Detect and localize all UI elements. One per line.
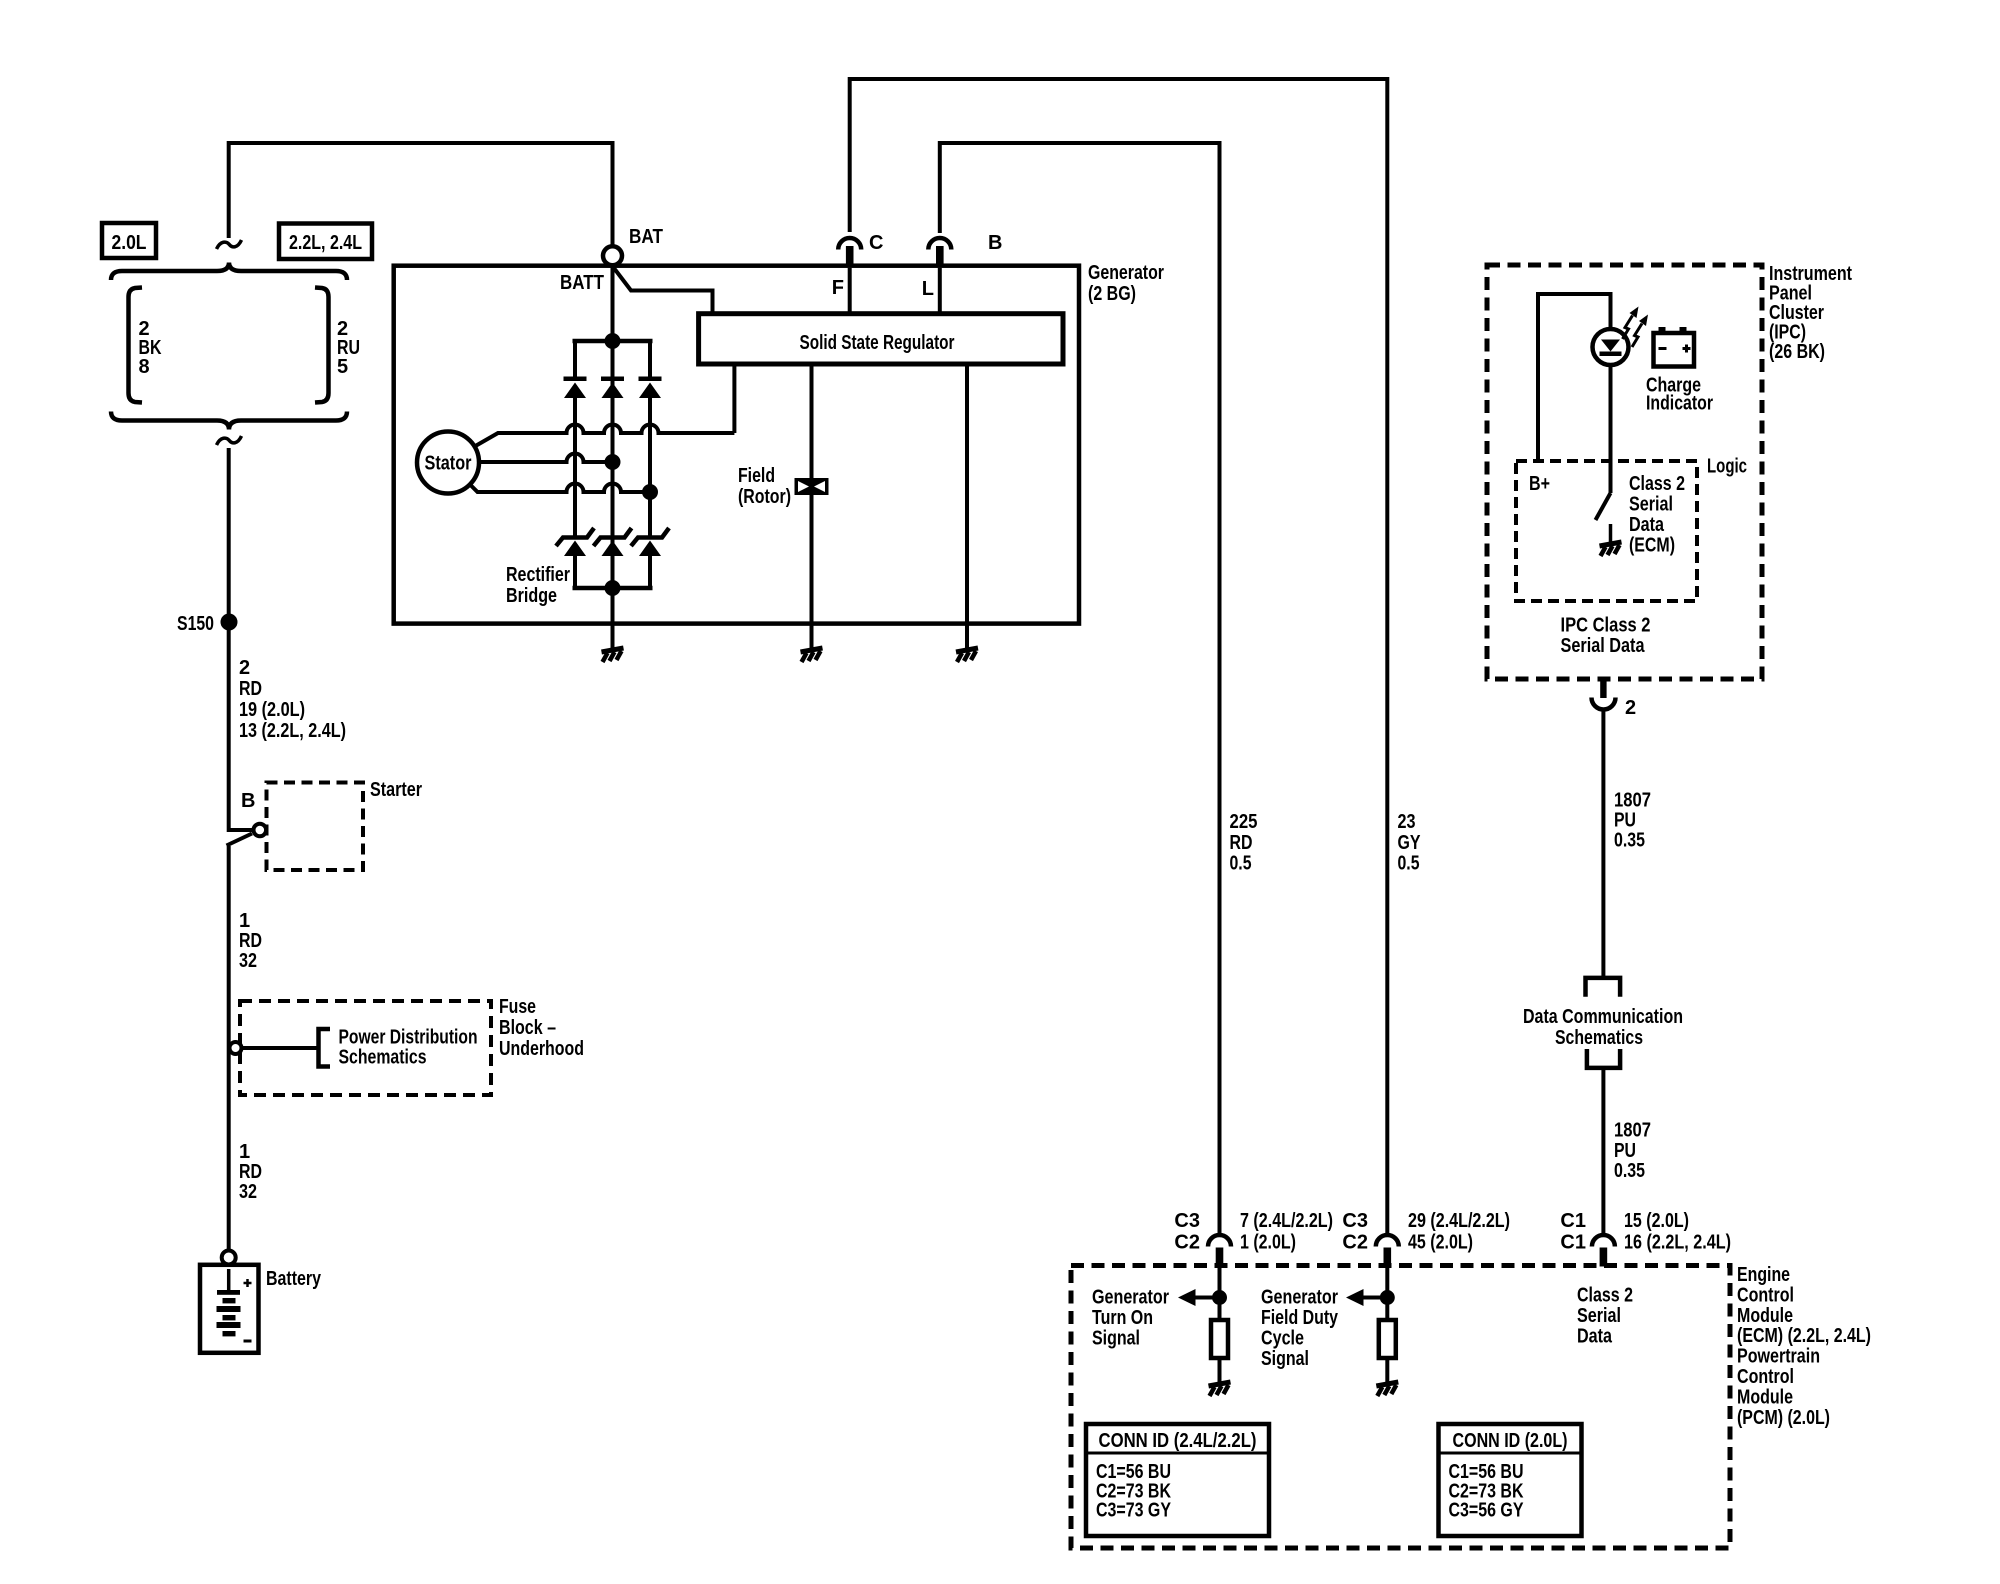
svg-text:F: F bbox=[832, 277, 844, 299]
svg-text:IPC Class 2: IPC Class 2 bbox=[1561, 615, 1651, 637]
svg-text:Module: Module bbox=[1737, 1305, 1793, 1327]
svg-text:45 (2.0L): 45 (2.0L) bbox=[1408, 1232, 1473, 1254]
svg-text:Data Communication: Data Communication bbox=[1523, 1006, 1683, 1028]
svg-text:BAT: BAT bbox=[629, 226, 663, 248]
svg-text:Engine: Engine bbox=[1737, 1264, 1790, 1286]
svg-text:(Rotor): (Rotor) bbox=[738, 486, 791, 508]
svg-text:Control: Control bbox=[1737, 1366, 1794, 1388]
svg-text:Serial: Serial bbox=[1629, 494, 1673, 516]
svg-text:Indicator: Indicator bbox=[1646, 393, 1713, 415]
svg-text:C3=73 GY: C3=73 GY bbox=[1096, 1500, 1172, 1522]
svg-text:RD: RD bbox=[1230, 832, 1253, 854]
svg-text:Serial Data: Serial Data bbox=[1561, 635, 1646, 657]
svg-text:(PCM) (2.0L): (PCM) (2.0L) bbox=[1737, 1407, 1830, 1429]
svg-text:5: 5 bbox=[337, 356, 348, 378]
svg-text:B+: B+ bbox=[1529, 473, 1550, 495]
svg-text:Serial: Serial bbox=[1577, 1305, 1621, 1327]
svg-text:Logic: Logic bbox=[1707, 456, 1747, 478]
svg-text:16 (2.2L, 2.4L): 16 (2.2L, 2.4L) bbox=[1624, 1232, 1731, 1254]
svg-text:0.5: 0.5 bbox=[1398, 853, 1420, 875]
svg-text:Battery: Battery bbox=[266, 1268, 322, 1290]
svg-text:Starter: Starter bbox=[370, 779, 422, 801]
svg-text:(26 BK): (26 BK) bbox=[1769, 341, 1825, 363]
svg-text:BATT: BATT bbox=[560, 272, 604, 294]
svg-text:Data: Data bbox=[1629, 514, 1665, 536]
svg-text:0.35: 0.35 bbox=[1614, 1160, 1645, 1182]
svg-text:S150: S150 bbox=[177, 613, 214, 635]
svg-text:CONN ID (2.0L): CONN ID (2.0L) bbox=[1453, 1430, 1568, 1452]
svg-text:1 (2.0L): 1 (2.0L) bbox=[1240, 1232, 1296, 1254]
svg-text:1807: 1807 bbox=[1614, 1120, 1651, 1142]
svg-text:C2: C2 bbox=[1174, 1232, 1200, 1254]
svg-text:Block –: Block – bbox=[499, 1017, 556, 1039]
svg-text:Schematics: Schematics bbox=[339, 1047, 427, 1069]
svg-text:PU: PU bbox=[1614, 1140, 1636, 1162]
svg-text:Generator: Generator bbox=[1092, 1287, 1169, 1309]
svg-text:29 (2.4L/2.2L): 29 (2.4L/2.2L) bbox=[1408, 1210, 1510, 1232]
svg-text:19 (2.0L): 19 (2.0L) bbox=[239, 699, 305, 721]
svg-text:Control: Control bbox=[1737, 1284, 1794, 1306]
svg-text:2: 2 bbox=[1625, 697, 1636, 719]
svg-text:Signal: Signal bbox=[1092, 1328, 1140, 1350]
svg-text:1: 1 bbox=[239, 910, 250, 932]
svg-text:RD: RD bbox=[239, 678, 262, 700]
svg-text:2: 2 bbox=[239, 657, 250, 679]
svg-text:Field Duty: Field Duty bbox=[1261, 1307, 1339, 1329]
svg-text:C: C bbox=[869, 232, 883, 254]
svg-text:Generator: Generator bbox=[1088, 262, 1164, 284]
svg-text:C2: C2 bbox=[1342, 1232, 1368, 1254]
svg-text:B: B bbox=[988, 232, 1002, 254]
svg-text:Module: Module bbox=[1737, 1386, 1793, 1408]
svg-text:Bridge: Bridge bbox=[506, 585, 557, 607]
svg-text:15 (2.0L): 15 (2.0L) bbox=[1624, 1210, 1689, 1232]
svg-text:Cycle: Cycle bbox=[1261, 1328, 1304, 1350]
svg-text:Schematics: Schematics bbox=[1555, 1027, 1643, 1049]
svg-text:RD: RD bbox=[239, 1161, 262, 1183]
svg-text:13 (2.2L, 2.4L): 13 (2.2L, 2.4L) bbox=[239, 720, 346, 742]
svg-text:Solid State Regulator: Solid State Regulator bbox=[800, 332, 955, 354]
svg-text:Rectifier: Rectifier bbox=[506, 564, 570, 586]
svg-text:C3: C3 bbox=[1342, 1210, 1368, 1232]
svg-text:Fuse: Fuse bbox=[499, 996, 536, 1018]
svg-text:(ECM) (2.2L, 2.4L): (ECM) (2.2L, 2.4L) bbox=[1737, 1325, 1871, 1347]
svg-text:Class 2: Class 2 bbox=[1577, 1285, 1633, 1307]
svg-text:Data: Data bbox=[1577, 1326, 1613, 1348]
svg-text:7 (2.4L/2.2L): 7 (2.4L/2.2L) bbox=[1240, 1210, 1333, 1232]
svg-text:Underhood: Underhood bbox=[499, 1038, 584, 1060]
svg-text:Generator: Generator bbox=[1261, 1287, 1338, 1309]
svg-text:CONN ID (2.4L/2.2L): CONN ID (2.4L/2.2L) bbox=[1099, 1430, 1257, 1452]
svg-text:B: B bbox=[241, 790, 255, 812]
svg-text:0.5: 0.5 bbox=[1230, 853, 1252, 875]
svg-text:Stator: Stator bbox=[425, 453, 472, 475]
svg-text:(ECM): (ECM) bbox=[1629, 535, 1675, 557]
svg-text:Power Distribution: Power Distribution bbox=[339, 1027, 478, 1049]
svg-text:32: 32 bbox=[239, 1181, 257, 1203]
svg-text:Field: Field bbox=[738, 465, 775, 487]
svg-text:1807: 1807 bbox=[1614, 790, 1651, 812]
svg-text:23: 23 bbox=[1398, 811, 1416, 833]
svg-text:225: 225 bbox=[1230, 811, 1258, 833]
svg-text:(2 BG): (2 BG) bbox=[1088, 283, 1136, 305]
svg-text:1: 1 bbox=[239, 1141, 250, 1163]
svg-text:Turn On: Turn On bbox=[1092, 1307, 1153, 1329]
svg-text:0.35: 0.35 bbox=[1614, 830, 1645, 852]
svg-text:C3: C3 bbox=[1174, 1210, 1200, 1232]
svg-text:32: 32 bbox=[239, 950, 257, 972]
svg-text:GY: GY bbox=[1398, 832, 1422, 854]
svg-text:2.2L, 2.4L: 2.2L, 2.4L bbox=[289, 232, 362, 254]
svg-text:Signal: Signal bbox=[1261, 1348, 1309, 1370]
svg-text:L: L bbox=[922, 278, 934, 300]
svg-text:Class 2: Class 2 bbox=[1629, 473, 1685, 495]
svg-text:PU: PU bbox=[1614, 810, 1636, 832]
svg-text:C1: C1 bbox=[1560, 1232, 1586, 1254]
svg-text:C3=56 GY: C3=56 GY bbox=[1449, 1500, 1525, 1522]
svg-text:2.0L: 2.0L bbox=[112, 232, 147, 254]
svg-text:C1: C1 bbox=[1560, 1210, 1586, 1232]
svg-text:Powertrain: Powertrain bbox=[1737, 1346, 1820, 1368]
svg-text:8: 8 bbox=[139, 356, 150, 378]
svg-text:RD: RD bbox=[239, 930, 262, 952]
